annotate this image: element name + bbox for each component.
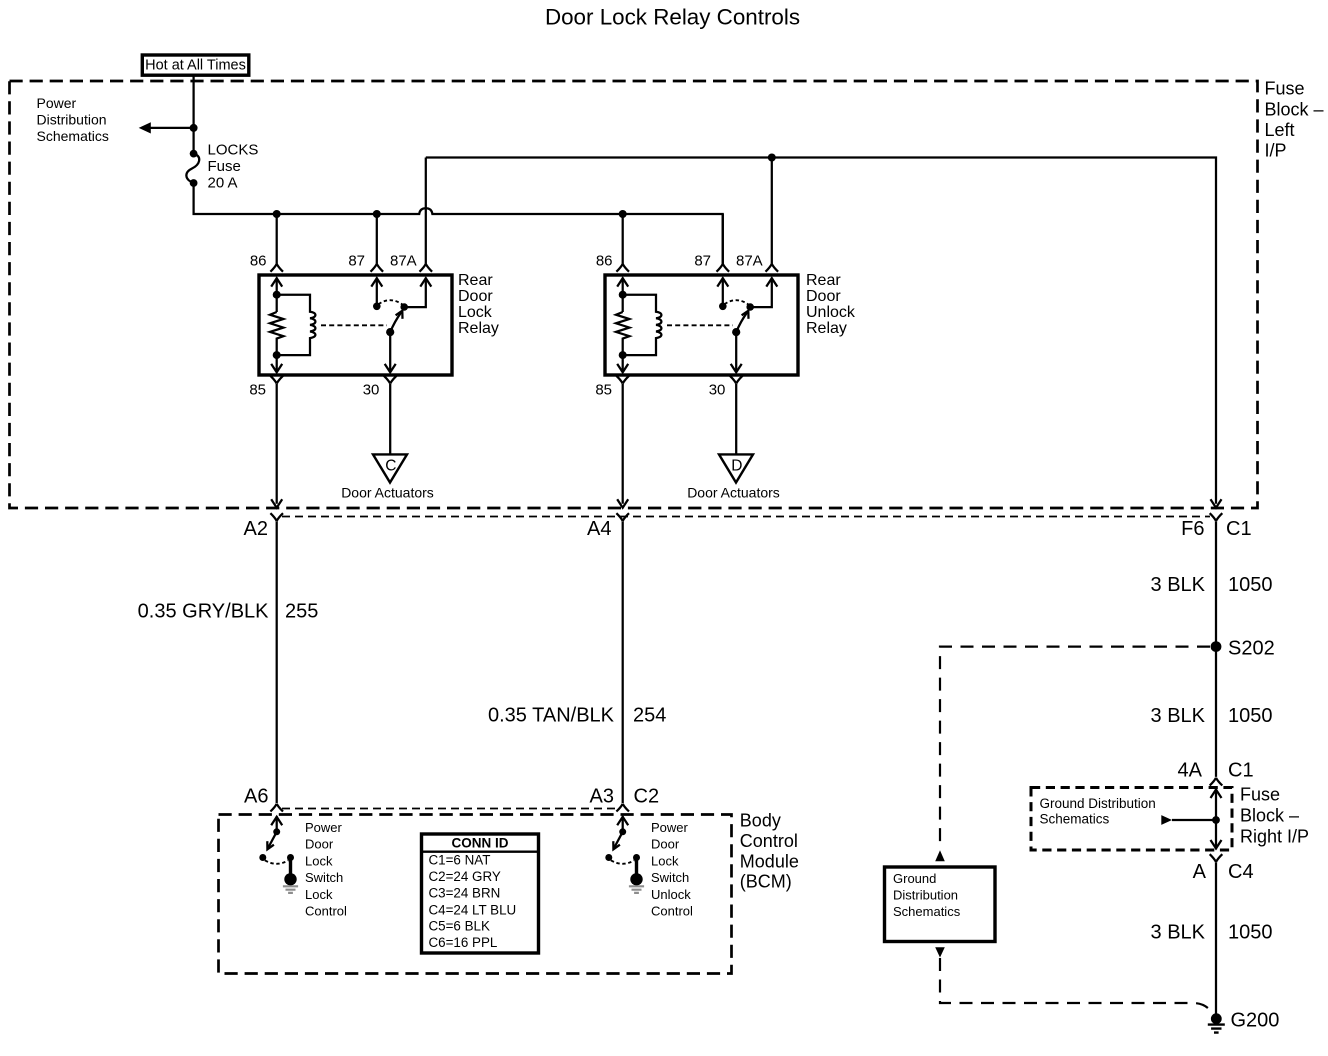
svg-text:I/P: I/P [1265,141,1287,161]
svg-text:Door Lock Relay Controls: Door Lock Relay Controls [545,5,800,30]
svg-text:Switch: Switch [651,870,689,885]
svg-text:Door: Door [458,288,493,305]
svg-text:C1=6 NAT: C1=6 NAT [429,852,491,867]
svg-text:Schematics: Schematics [1040,812,1110,827]
svg-text:Door Actuators: Door Actuators [687,485,780,501]
svg-text:Block –: Block – [1240,806,1299,826]
svg-text:Lock: Lock [305,853,333,868]
svg-text:Rear: Rear [458,272,493,289]
svg-text:Block –: Block – [1265,100,1324,120]
svg-text:G200: G200 [1231,1010,1280,1032]
svg-text:A2: A2 [244,518,268,540]
svg-text:Left: Left [1265,120,1295,140]
svg-text:Module: Module [740,851,799,871]
svg-text:0.35 GRY/BLK: 0.35 GRY/BLK [138,601,269,623]
svg-text:Lock: Lock [651,853,679,868]
svg-text:Rear: Rear [806,272,841,289]
svg-text:Control: Control [305,904,347,919]
svg-text:S202: S202 [1228,638,1275,660]
svg-text:Distribution: Distribution [893,888,958,903]
svg-text:A6: A6 [244,786,268,808]
svg-text:Fuse: Fuse [1240,785,1280,805]
svg-text:Control: Control [740,831,798,851]
svg-text:Distribution: Distribution [37,111,107,127]
svg-text:C2=24 GRY: C2=24 GRY [429,869,501,884]
svg-text:Hot at All Times: Hot at All Times [145,58,246,74]
svg-text:1050: 1050 [1228,922,1273,944]
svg-text:LOCKS: LOCKS [208,142,259,159]
svg-text:Power: Power [651,820,689,835]
svg-text:Body: Body [740,811,781,831]
svg-text:3 BLK: 3 BLK [1151,574,1206,596]
svg-text:Ground: Ground [893,871,936,886]
svg-text:Relay: Relay [806,320,847,337]
svg-text:CONN ID: CONN ID [452,835,509,850]
svg-text:A3: A3 [590,786,614,808]
svg-text:Door Actuators: Door Actuators [341,485,434,501]
svg-text:C5=6 BLK: C5=6 BLK [429,919,490,934]
svg-text:Lock: Lock [458,304,493,321]
svg-text:C1: C1 [1226,518,1252,540]
svg-text:Fuse: Fuse [1265,79,1305,99]
svg-text:C1: C1 [1228,760,1254,782]
svg-text:Lock: Lock [305,887,333,902]
svg-text:Schematics: Schematics [37,128,109,144]
svg-text:C4=24 LT BLU: C4=24 LT BLU [429,902,517,917]
svg-text:C6=16 PPL: C6=16 PPL [429,935,498,950]
svg-text:C4: C4 [1228,861,1254,883]
svg-text:1050: 1050 [1228,574,1273,596]
svg-text:Door: Door [305,837,334,852]
svg-text:Power: Power [37,95,77,111]
svg-text:254: 254 [633,705,666,727]
svg-text:Switch: Switch [305,870,343,885]
svg-text:C: C [385,458,396,475]
svg-text:Fuse: Fuse [208,158,241,175]
svg-text:Unlock: Unlock [806,304,856,321]
svg-text:A: A [1193,861,1207,883]
svg-text:Unlock: Unlock [651,887,691,902]
svg-text:3 BLK: 3 BLK [1151,705,1206,727]
svg-text:0.35 TAN/BLK: 0.35 TAN/BLK [488,705,615,727]
svg-text:Door: Door [806,288,841,305]
svg-text:255: 255 [285,601,318,623]
svg-text:Schematics: Schematics [893,904,961,919]
svg-text:Ground Distribution: Ground Distribution [1040,796,1156,811]
svg-text:C2: C2 [634,786,660,808]
svg-text:C3=24 BRN: C3=24 BRN [429,885,501,900]
svg-text:4A: 4A [1178,760,1203,782]
svg-text:1050: 1050 [1228,705,1273,727]
svg-text:20 A: 20 A [208,175,238,192]
svg-text:A4: A4 [587,518,611,540]
svg-text:Power: Power [305,820,343,835]
svg-text:Door: Door [651,837,680,852]
svg-text:Control: Control [651,904,693,919]
svg-text:D: D [731,458,742,475]
svg-text:Relay: Relay [458,320,499,337]
svg-text:Right I/P: Right I/P [1240,827,1309,847]
svg-text:(BCM): (BCM) [740,872,792,892]
svg-text:F6: F6 [1181,518,1204,540]
svg-text:3 BLK: 3 BLK [1151,922,1206,944]
